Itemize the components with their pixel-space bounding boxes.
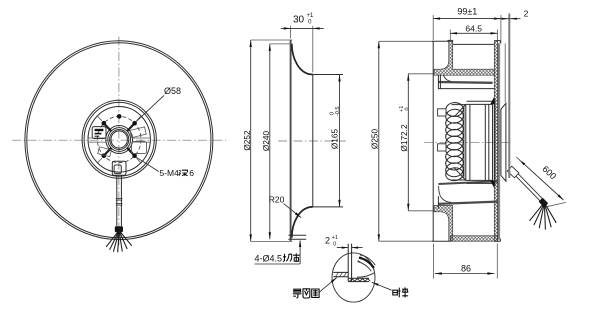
side view bottom edge line (379, 240, 451, 242)
detail: impeller shroud horizontal section (348, 278, 370, 281)
bolt hole dot upper-right (132, 121, 137, 126)
hub rim outer circle (82, 100, 156, 178)
stator stud upper (438, 109, 446, 116)
detail circle (332, 253, 375, 302)
svg-text:30: 30 (293, 14, 305, 25)
svg-text:2: 2 (524, 8, 529, 18)
shroud inner thin line top (438, 88, 494, 90)
dimension Ø172.2 (399, 74, 410, 211)
guide ring flange section top + shroud band (hatched) (434, 41, 494, 75)
label 导风圈 (guide ring) with leader (293, 277, 337, 298)
spoke upper-left (105, 124, 112, 131)
dimension 99±1 (433, 7, 501, 44)
stator stud lower (438, 144, 446, 151)
blade root quad upper-right (130, 127, 146, 138)
motor body internal lines (466, 104, 489, 180)
svg-text:5-M4: 5-M4 (160, 168, 180, 178)
dimension 2+1/0 (detail wall) (325, 235, 363, 249)
svg-text:0: 0 (405, 107, 411, 112)
dimension 4-Ø4.5均布 text (255, 253, 300, 263)
svg-text:+1: +1 (307, 13, 315, 19)
shroud curve join top (444, 75, 452, 81)
bolt hole dot lower-left (102, 154, 107, 159)
shroud inner surface bottom (thick) (438, 202, 497, 204)
extension line top Ø240 (270, 43, 293, 45)
coil end caps (452, 105, 466, 180)
svg-text:Ø240: Ø240 (261, 130, 271, 151)
front view horizontal centerline (12, 139, 226, 141)
svg-text:6: 6 (189, 168, 194, 178)
motor body outline (454, 104, 492, 180)
dimension 30 text (293, 13, 314, 26)
throat lip vertical top (438, 75, 440, 89)
front view vertical centerline (118, 37, 120, 246)
dimension 30 line and arrows (281, 27, 324, 29)
motor boss circle 3 (110, 130, 129, 150)
throat bottom edge (313, 206, 343, 208)
svg-text:+1: +1 (332, 235, 338, 241)
cable gland on hub (112, 161, 126, 175)
motor boss circle 1 (106, 126, 133, 154)
spoke upper-right (127, 124, 134, 131)
dimension 600 (516, 157, 566, 207)
cable end wrap blob (539, 198, 549, 208)
spoke lower-left (105, 148, 112, 155)
throat lip curve bottom (438, 186, 451, 209)
dimension 2 (mount plate) (492, 8, 529, 178)
bolt hole dot top (117, 114, 122, 119)
dimension 64.5 (450, 24, 497, 41)
inlet ring end face (312, 75, 314, 207)
bolt hole dot upper-left (102, 121, 107, 126)
thin radial lines to rim (97, 116, 141, 164)
right small plate (132, 141, 147, 153)
motor boss circle 2 (108, 128, 131, 152)
side view centerline (424, 141, 512, 143)
inlet ring bottom bell curve (292, 207, 313, 238)
blade root quad lower-left (98, 147, 112, 157)
blade top edge line (453, 43, 495, 45)
wire tube (116, 175, 123, 226)
impeller backplate section wall (hatched vertical) (494, 41, 497, 241)
inlet ring flange (vertical line) (290, 40, 292, 241)
throat top edge (313, 74, 343, 76)
shroud inner surface top (thick) (438, 81, 493, 84)
hub web horizontal lines left (89, 138, 107, 142)
dimension Ø172.2 extension lines (408, 74, 433, 211)
backplate top lip (494, 41, 500, 44)
inlet ring top bell curve (292, 44, 313, 75)
svg-text:4-Ø4.5: 4-Ø4.5 (255, 253, 283, 263)
svg-text:0: 0 (307, 20, 313, 26)
svg-text:Ø252: Ø252 (242, 130, 252, 151)
detail: impeller shroud step (right) (357, 254, 375, 277)
dimension 4-Ø4.5 leader (255, 240, 302, 264)
backplate bottom lip (494, 238, 500, 241)
guide ring flange section bottom (hatched) (434, 206, 453, 242)
dimension 86 (434, 244, 498, 279)
svg-text:-0.5: -0.5 (335, 107, 341, 116)
inlet ring section centerline (278, 140, 346, 142)
dimension 5-M4深6 (136, 157, 194, 178)
dimension Ø165 (330, 75, 341, 207)
backplate corner wedge bottom (490, 181, 494, 189)
dimension Ø252 (242, 40, 252, 241)
frayed cable ends (530, 205, 557, 230)
svg-text:Ø250: Ø250 (370, 128, 380, 149)
hub web horizontal lines right (133, 138, 150, 142)
cable gland (507, 166, 519, 178)
backplate corner wedge top (490, 97, 494, 105)
motor hub lines (467, 101, 493, 183)
impeller outer rim (outer circle) (25, 41, 213, 240)
dimension Ø250 (370, 41, 380, 241)
frayed wire ends (106, 231, 132, 253)
inlet face (left vertical line) (432, 41, 434, 241)
coil right boundary (463, 106, 465, 178)
detail: guide ring flange section (left band) (333, 272, 348, 276)
dimension Ø240 (261, 44, 271, 239)
side view top edge line (379, 40, 451, 42)
hub rim second circle (84, 102, 154, 176)
extension line bottom Ø252 (251, 240, 293, 242)
bolt circle Ø58 (dashed) (97, 116, 141, 162)
svg-text:99±1: 99±1 (457, 7, 477, 17)
cable (516, 174, 544, 203)
dimension 30 extension lines (291, 26, 313, 73)
svg-text:0: 0 (332, 241, 337, 247)
extension line top Ø252 (251, 39, 293, 41)
bolt hole dot lower-right (132, 154, 137, 159)
nameplate (left small plate) (92, 127, 106, 139)
svg-text:Ø58: Ø58 (164, 86, 181, 96)
spoke lower-right (127, 148, 134, 155)
flange bolt hole marks bottom (288, 235, 306, 239)
svg-text:Ø172.2: Ø172.2 (399, 124, 409, 152)
motor bottom shadow line (thick) (438, 181, 497, 184)
wire wrap blob (115, 226, 123, 232)
dimension Ø58 (136, 86, 182, 122)
label 叶轮 (impeller) with leader (372, 282, 408, 297)
dimension R20 (269, 194, 301, 217)
impeller backplate bottom rim band (hatched) (450, 236, 497, 241)
motor mount block (501, 103, 506, 181)
impeller outer rim (inner circle) (27, 43, 211, 238)
svg-text:64.5: 64.5 (465, 24, 482, 34)
motor stator coils (445, 102, 464, 182)
motor front rings (493, 99, 495, 187)
shaft circle (111, 131, 127, 148)
casing right face lines (498, 43, 505, 239)
svg-text:R20: R20 (269, 194, 285, 204)
guide ring flange top lip (447, 39, 453, 41)
detail: guide ring throat wall (vertical) (348, 244, 351, 282)
hub inner circle (88, 107, 150, 173)
svg-text:86: 86 (461, 263, 471, 273)
svg-text:2: 2 (325, 235, 330, 245)
svg-text:Ø165: Ø165 (330, 128, 340, 149)
